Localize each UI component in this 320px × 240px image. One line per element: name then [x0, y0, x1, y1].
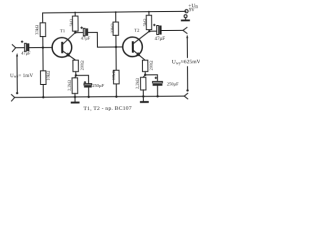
svg-text:250µF: 250µF	[92, 83, 104, 88]
resistor RE1a 200R emitter T1	[73, 60, 78, 71]
resistor R1 33k upper divider T1	[40, 23, 46, 37]
svg-text:T2: T2	[134, 28, 140, 33]
svg-text:10kΩ: 10kΩ	[111, 70, 116, 81]
wire rail corner down to R1	[42, 13, 44, 23]
earth symbol under T2 emitter	[140, 96, 149, 103]
resistor RC1 5k collector T1	[74, 13, 76, 16]
wire C1 to T1 base	[29, 46, 52, 48]
node ground rail RE2b	[142, 95, 144, 97]
resistor R3 33k upper divider T2	[115, 12, 117, 22]
resistor R2 10k lower divider T1	[42, 48, 44, 71]
plus sign C3	[84, 81, 86, 83]
svg-text:5kΩ: 5kΩ	[142, 18, 147, 26]
svg-text:33kΩ: 33kΩ	[110, 23, 115, 34]
svg-text:47µF: 47µF	[81, 35, 91, 40]
svg-text:Uwe= 1mV: Uwe= 1mV	[10, 74, 33, 79]
svg-text:200Ω: 200Ω	[148, 60, 153, 71]
node top rail RC1	[74, 12, 76, 14]
plus sign C2	[80, 27, 82, 29]
capacitor C2 47uF interstage	[75, 32, 83, 34]
svg-text:Uwy≈625mV: Uwy≈625mV	[172, 59, 200, 65]
output terminal fork	[183, 27, 187, 33]
wire input to C1	[16, 47, 25, 49]
plus sign C1	[21, 24, 157, 84]
svg-text:200Ω: 200Ω	[79, 60, 84, 71]
plus sign C5	[153, 24, 155, 26]
resistor RE1b 2.2k emitter T1	[75, 75, 76, 78]
plus sign C4	[155, 77, 157, 79]
svg-text:47µF: 47µF	[155, 37, 166, 42]
chassis terminal under supply	[181, 15, 190, 22]
svg-text:T1, T2 - np. BC107: T1, T2 - np. BC107	[83, 106, 131, 112]
node base T1	[42, 46, 44, 48]
bottom ground rail	[15, 96, 185, 97]
node ground rail C3	[88, 96, 90, 98]
top supply rail	[43, 11, 186, 13]
svg-text:47µF: 47µF	[21, 51, 31, 56]
node ground rail RE1b	[74, 96, 76, 98]
resistor R4 10k lower divider T2	[115, 47, 117, 70]
node collector T2	[148, 30, 150, 32]
capacitor C3 250uF bypass T1	[76, 75, 89, 83]
capacitor C5 47uF output coupling	[149, 30, 156, 32]
node top rail RC2	[148, 11, 150, 13]
svg-text:250µF: 250µF	[167, 81, 179, 86]
T2 emitter line with arrow	[134, 51, 145, 61]
resistor RE2a 200R emitter T2	[142, 60, 147, 71]
ground terminal fork right	[184, 93, 187, 99]
T1 emitter line with arrow	[63, 51, 76, 60]
svg-text:T1: T1	[60, 28, 66, 33]
node ground rail R4	[115, 96, 117, 98]
node emitter divider T1	[75, 74, 77, 76]
transistor T2 circle	[123, 37, 143, 57]
svg-text:33kΩ: 33kΩ	[34, 24, 39, 35]
svg-text:5kΩ: 5kΩ	[68, 18, 73, 26]
svg-text:10kΩ: 10kΩ	[45, 70, 50, 81]
svg-text:9V: 9V	[189, 8, 195, 13]
node collector T1	[74, 31, 76, 33]
capacitor C1 47uF input coupling	[25, 43, 30, 51]
output voltage arrow	[186, 35, 189, 92]
input terminal fork	[12, 45, 15, 52]
T2 collector line	[133, 31, 149, 43]
node ground rail C4	[156, 95, 158, 97]
input voltage arrow	[16, 53, 19, 94]
node emitter divider T2	[144, 74, 146, 76]
node top rail R3	[115, 11, 117, 13]
earth symbol under T1 emitter	[71, 97, 80, 104]
ground terminal fork left	[11, 95, 14, 101]
T1 base bar	[61, 42, 63, 53]
supply terminal circle	[185, 10, 188, 13]
node ground rail R2	[42, 96, 44, 98]
T1 collector line	[63, 33, 75, 44]
node base T2	[115, 46, 117, 48]
wire C2 to T2 base	[88, 32, 123, 47]
T2 base bar	[132, 41, 134, 52]
resistor RE2b 2.2k emitter T2	[143, 75, 145, 78]
transistor T1 circle	[52, 38, 72, 58]
wire R1 to base node	[42, 37, 44, 48]
capacitor C4 250uF bypass T2	[145, 75, 157, 82]
resistor RC2 5k collector T2	[148, 12, 150, 16]
